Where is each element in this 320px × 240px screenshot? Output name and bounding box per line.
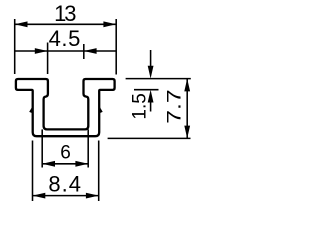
dim 1.5: upper arrowhead (pointing down): [148, 66, 154, 79]
dim 4.5: left arrowhead (outside, pointing right): [35, 48, 48, 54]
dim 13: extension line right: [115, 19, 117, 75]
svg-text:8.4: 8.4: [48, 171, 82, 196]
dim 4.5: extension line left: [47, 43, 49, 75]
dim 6: dimension line: [42, 163, 88, 165]
dim 8.4: left arrowhead: [33, 193, 46, 199]
dim 8.4: extension line left: [32, 141, 34, 202]
svg-text:7.7: 7.7: [163, 89, 185, 123]
dim 8.4: extension line right: [98, 141, 100, 202]
right retention barb: [100, 107, 103, 113]
svg-text:13: 13: [54, 1, 76, 26]
dim 4.5: right arrowhead (outside, pointing left): [84, 48, 97, 54]
top surface extension line (right): [126, 78, 191, 80]
dim 7.7: dimension line: [186, 79, 188, 139]
dim 13: right arrowhead: [103, 21, 116, 27]
dim 13: dimension line: [15, 23, 117, 25]
dim 6: right arrowhead: [75, 161, 88, 167]
dim 1.5: upper leader line: [150, 50, 152, 69]
svg-text:1.5: 1.5: [129, 93, 150, 119]
svg-text:4.5: 4.5: [49, 26, 81, 51]
left retention barb: [29, 107, 32, 113]
dim 6: extension line left: [41, 129, 43, 167]
dim 6: extension line right: [87, 129, 89, 167]
dim 6: left arrowhead: [42, 161, 55, 167]
svg-text:6: 6: [60, 142, 71, 163]
dim 4.5: extension tick right: [83, 44, 85, 59]
dim 13: left arrowhead: [15, 21, 28, 27]
dim 1.5: lower arrowhead (pointing up): [148, 90, 154, 103]
dim 7.7: bottom arrowhead (pointing down): [184, 126, 190, 139]
dim 8.4: right arrowhead: [86, 193, 99, 199]
dim 7.7: top arrowhead (pointing up): [184, 79, 190, 92]
dim 1.5: lower leader line: [150, 100, 152, 112]
dim 8.4: dimension line: [33, 195, 99, 197]
flange underside extension line (right): [134, 89, 159, 91]
bottom baseline extension (right): [108, 137, 191, 139]
profile outline (channel cross-section): [16, 79, 115, 136]
dim 13: extension line left: [14, 19, 16, 74]
dim 4.5: dimension line: [15, 50, 117, 52]
